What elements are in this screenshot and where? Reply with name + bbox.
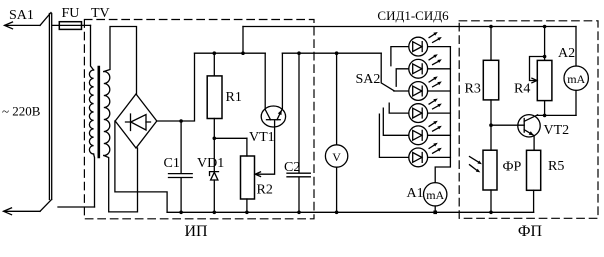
- wire: riser to unregulated top rail: [242, 27, 244, 54]
- node: plus left segment: [195, 52, 266, 54]
- wire: fuse feed: [53, 24, 91, 26]
- svg-text:VD1: VD1: [197, 156, 224, 171]
- wire: bottom mains lead with arrow: [4, 210, 40, 212]
- transformer TV primary winding: [89, 70, 93, 154]
- svg-text:A2: A2: [558, 46, 575, 61]
- junction dot riser to top rail: [241, 51, 245, 55]
- wire: secondary bottom lead to bridge bottom: [104, 148, 138, 212]
- wire: unregulated top rail: [243, 26, 576, 28]
- node: VD1/R2 base node: [213, 137, 217, 141]
- transformer TV secondary winding: [104, 72, 110, 156]
- junction dot R2 bottom: [245, 211, 249, 215]
- junction dot C1 bottom: [179, 211, 183, 215]
- svg-text:mA: mA: [426, 188, 444, 202]
- wire: bridge minus (left corner) down and right: [115, 121, 167, 212]
- milliammeter A2: [564, 66, 588, 90]
- svg-text:C2: C2: [284, 160, 300, 175]
- svg-text:R3: R3: [465, 82, 481, 97]
- R2 wiper arrow to VT1 base: [256, 120, 274, 174]
- block ИП dashed border: [84, 20, 314, 219]
- svg-text:R4: R4: [514, 82, 530, 97]
- resistor R5: [527, 150, 541, 190]
- switch SA2 common riser and blade: [381, 53, 394, 91]
- svg-text:VT2: VT2: [544, 123, 570, 138]
- LED СИД1: [409, 32, 442, 56]
- LED СИД6: [409, 143, 442, 167]
- wire: primary top riser: [91, 25, 94, 70]
- wire: main bottom rail: [167, 211, 533, 213]
- LED СИД4: [409, 99, 442, 123]
- LED СИД3: [409, 76, 442, 100]
- milliammeter A1: [424, 183, 447, 206]
- capacitor C1: [169, 121, 193, 212]
- svg-text:ФП: ФП: [518, 223, 543, 240]
- junction dot VD1 bottom: [213, 211, 217, 215]
- transistor VT2: [518, 115, 540, 137]
- svg-text:VT1: VT1: [249, 130, 275, 145]
- resistor R1: [207, 76, 222, 119]
- bridge rectifier diamond: [115, 94, 157, 148]
- wire: secondary top lead to bridge top: [104, 27, 137, 95]
- switch SA1 linkage (double line): [48, 14, 50, 200]
- potentiometer R4: [537, 60, 552, 100]
- R4 wiper: [530, 57, 545, 81]
- svg-text:V: V: [332, 150, 341, 164]
- svg-text:R2: R2: [257, 183, 273, 198]
- svg-text:C1: C1: [164, 156, 180, 171]
- junction dot C1 top: [179, 119, 183, 123]
- resistor R3: [483, 60, 498, 100]
- wire: top mains lead with arrow: [5, 24, 40, 26]
- svg-text:R1: R1: [226, 90, 242, 105]
- wire: R4/A2 bottom to VT2 collector: [538, 114, 577, 116]
- svg-text:FU: FU: [62, 6, 80, 21]
- photoresistor ФР: [483, 150, 497, 190]
- fuse FU: [59, 22, 81, 30]
- switch SA1 top blade: [40, 13, 51, 26]
- svg-text:SA2: SA2: [356, 72, 381, 87]
- switch SA1 bottom blade: [40, 200, 52, 212]
- junction dot C2 bottom: [297, 211, 301, 215]
- svg-text:СИД1-СИД6: СИД1-СИД6: [377, 8, 449, 23]
- wire: bridge plus (right corner) to C1/R1 node: [157, 53, 195, 121]
- LED СИД2: [409, 54, 442, 78]
- svg-text:mA: mA: [567, 72, 585, 86]
- zener diode VD1: [213, 138, 215, 171]
- svg-text:TV: TV: [91, 6, 110, 21]
- voltmeter V: [325, 145, 347, 167]
- wire: primary bottom riser: [93, 154, 96, 207]
- transistor VT1: [261, 106, 285, 127]
- LED СИД5: [409, 121, 442, 145]
- svg-text:ФР: ФР: [503, 160, 522, 175]
- junction dot C2 top: [297, 51, 301, 55]
- svg-text:A1: A1: [407, 186, 424, 201]
- svg-text:R5: R5: [548, 159, 564, 174]
- junction dot R1 top: [213, 51, 217, 55]
- svg-text:SA1: SA1: [9, 8, 34, 23]
- potentiometer R2: [241, 156, 255, 199]
- node: VT2 base: [489, 123, 493, 127]
- node: plus right (output) segment: [282, 52, 381, 54]
- svg-text:ИП: ИП: [184, 223, 208, 240]
- junction dot V top: [335, 51, 339, 55]
- capacitor C2: [287, 53, 310, 212]
- svg-text:~ 220В: ~ 220В: [2, 104, 41, 119]
- transformer TV core: [98, 67, 101, 157]
- block ФП dashed border: [459, 21, 598, 219]
- wire: bottom fixed contact to transformer primary: [58, 206, 95, 208]
- bridge diode icon: [126, 114, 151, 131]
- wire: LED cathode rail down to A1: [435, 47, 450, 183]
